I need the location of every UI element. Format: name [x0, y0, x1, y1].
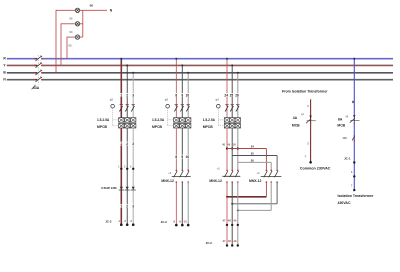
wire branch1 phase L1 feeder from bus R [120, 58, 122, 118]
svg-text:-47: -47 [222, 218, 226, 222]
wire branch3 phase L3 feeder from bus B [237, 72, 239, 118]
svg-text:From Isolation Transformer: From Isolation Transformer [282, 89, 328, 93]
terminal node branch3 JC-2 pin 48 [231, 244, 233, 246]
wire branch2 phase L1 MPCB to contactor [175, 128, 177, 170]
junction node branch3 wire 50 [237, 147, 239, 149]
svg-text:-49: -49 [233, 239, 237, 243]
bus B (phase bus line) [7, 72, 393, 74]
terminal node branch2 JC-2 pin 10 [187, 224, 190, 227]
MPCB q2 1.5-2.5A motor protection circuit breaker branch1 [111, 104, 136, 128]
svg-text:1.5-2.5A: 1.5-2.5A [97, 118, 110, 122]
wire branch1 phase L1 MPCB to motor terminal [120, 128, 122, 225]
wire 25 tap to reversing contactor [232, 156, 277, 171]
terminal node branch2 JC-2 pin 8 [175, 224, 178, 227]
pin number 2 branch1 lower [126, 204, 129, 208]
wire number 3 branch1 mid [132, 142, 135, 146]
terminal node branch3 row1 pin 49 [237, 224, 239, 226]
wire branch2 phase L2 contactor to terminal [181, 182, 183, 225]
svg-text:JC-2: JC-2 [161, 220, 168, 224]
wire branch3 phase L2 feeder from bus Y [231, 64, 233, 117]
wire branch2 phase L2 feeder from bus Y [181, 64, 183, 117]
wire branch3 phase L1 feeder from bus R [226, 58, 228, 118]
svg-text:1: 1 [120, 142, 122, 146]
wire reverse return 25 to motor V [232, 182, 277, 204]
wire branch2 phase L3 MPCB to contactor [187, 128, 189, 170]
svg-text:-47: -47 [222, 239, 226, 243]
pin number 26 branch3 [235, 93, 240, 97]
bus N (phase bus line) [7, 79, 393, 81]
pin number 3 branch1 lower [132, 204, 135, 208]
wire branch3 phase L2 MPCB to contactor K3 [231, 128, 233, 170]
svg-text:24: 24 [251, 145, 254, 149]
svg-text:2: 2 [126, 142, 128, 146]
terminal node branch2 JC-2 pin 9 [181, 224, 184, 227]
junction node U [226, 196, 228, 198]
svg-text:-48: -48 [227, 218, 231, 222]
svg-text:3: 3 [132, 94, 134, 98]
wire branch1 phase L3 feeder from bus B [132, 72, 134, 118]
svg-text:JC-2: JC-2 [206, 241, 213, 245]
wire lamp LP1 to bus B [56, 10, 75, 73]
svg-text:2: 2 [126, 94, 128, 98]
contactor K2 MNX-12 (3-pole) [172, 170, 191, 183]
wire lamp LP2 to bus Y [61, 23, 75, 65]
pin number 8 branch2 [175, 93, 178, 97]
svg-text:2: 2 [126, 205, 128, 209]
pin number 2 branch1 [126, 93, 129, 97]
wire number 8 branch2 mid [175, 155, 178, 159]
terminal node branch3 JC-2 pin 49 [237, 244, 239, 246]
MPCB q3 1.5-2.5A motor protection circuit breaker branch2 [166, 104, 191, 128]
pin number 3 branch1 [132, 93, 135, 97]
wire bus R to isolation transformer primary [353, 58, 355, 190]
indicator lamp LP1 [75, 8, 79, 12]
wire number 2 branch1 mid [126, 142, 129, 146]
svg-text:MNX-12: MNX-12 [249, 179, 262, 183]
wire lamp common to neutral N [80, 9, 107, 11]
svg-text:1.5-2.5A: 1.5-2.5A [152, 118, 165, 122]
wire branch2 phase L2 MPCB to contactor [181, 128, 183, 170]
svg-text:06: 06 [90, 4, 94, 8]
wire reverse return 24 to motor U [227, 182, 266, 197]
terminal node branch1 JC-2 pin 3 [132, 223, 135, 226]
wire branch2 phase L3 feeder from bus B [187, 72, 189, 118]
wire reverse return 26 to motor W [238, 182, 271, 210]
terminal node branch3 row1 pin 48 [231, 224, 233, 226]
wire branch3 phase L1 contactor to terminals [226, 182, 228, 245]
svg-text:9: 9 [181, 155, 183, 159]
wire number 10 branch2 mid [185, 155, 190, 159]
svg-text:1.5-2.5A: 1.5-2.5A [203, 118, 216, 122]
svg-text:3: 3 [132, 142, 134, 146]
plug connector PJ1 branch1 (3 poles) [119, 187, 136, 190]
bus R (phase bus line) [7, 58, 393, 60]
MCB F2 6A [350, 115, 360, 124]
terminal node JC-1 pin a [353, 161, 355, 163]
svg-text:9: 9 [181, 94, 183, 98]
svg-text:1: 1 [120, 205, 122, 209]
svg-text:-49: -49 [233, 218, 237, 222]
svg-text:Common 230VAC: Common 230VAC [300, 167, 331, 171]
wire lamp common vertical [80, 10, 83, 37]
pin number 10 branch2 [185, 93, 190, 97]
terminal node transformer primary [353, 189, 355, 191]
svg-text:26: 26 [235, 94, 239, 98]
terminal node branch1 JC-2 pin 2 [126, 223, 129, 226]
terminal node Common 230VAC [309, 161, 312, 164]
wire number 1 branch1 mid [120, 142, 123, 146]
terminal node branch1 JC-2 pin 1 [120, 223, 123, 226]
junction node branch3 wire 48 [226, 147, 228, 149]
junction node W [237, 209, 239, 211]
svg-text:3: 3 [132, 205, 134, 209]
svg-text:JC-1: JC-1 [344, 157, 351, 161]
svg-text:Isolation Trnasformer: Isolation Trnasformer [338, 194, 374, 198]
svg-text:24: 24 [224, 94, 228, 98]
svg-text:-48: -48 [227, 239, 231, 243]
MCB F1 4A [306, 116, 316, 125]
wire control feed 230VAC [310, 99, 312, 162]
svg-text:1: 1 [120, 94, 122, 98]
svg-text:-10: -10 [183, 220, 187, 224]
svg-text:8: 8 [175, 94, 177, 98]
wire branch1 phase L2 MPCB to motor terminal [126, 128, 128, 225]
pin number 9 branch2 [181, 93, 184, 97]
wire branch1 phase L2 feeder from bus Y [126, 64, 128, 117]
wire branch3 phase L3 contactor to terminals [237, 182, 239, 245]
svg-text:10: 10 [186, 155, 190, 159]
svg-text:10: 10 [186, 94, 190, 98]
pin number 1 branch1 [120, 93, 123, 97]
svg-text:MNX-12: MNX-12 [209, 179, 222, 183]
bus Y (phase bus line) [7, 64, 393, 66]
wire branch1 phase L3 MPCB to motor terminal [132, 128, 134, 225]
svg-text:MCB: MCB [292, 123, 300, 127]
junction node branch1 wire 3 [132, 168, 134, 170]
pin number 24 branch3 [224, 93, 229, 97]
svg-text:MPCB: MPCB [152, 125, 163, 129]
wire lamp LP3 to bus R [67, 37, 75, 59]
svg-text:MCB: MCB [337, 124, 345, 128]
terminal node branch3 JC-2 pin 47 [226, 244, 228, 246]
junction node V [231, 203, 233, 205]
svg-text:430VAC: 430VAC [338, 201, 351, 205]
svg-text:ON: ON [343, 136, 347, 140]
tap arrow node [352, 100, 354, 103]
svg-text:25: 25 [251, 152, 254, 156]
svg-text:6A: 6A [338, 117, 343, 121]
wire 24 tap to reversing contactor [227, 149, 266, 171]
terminal node branch3 row1 pin 47 [226, 224, 228, 226]
svg-text:JC-2: JC-2 [105, 219, 112, 223]
pin number 25 branch3 [229, 93, 234, 97]
junction node branch1 wire 1 [120, 168, 122, 170]
wire branch2 phase L3 contactor to terminal [187, 182, 189, 225]
wire branch3 phase L1 MPCB to contactor K3 [226, 128, 228, 170]
svg-text:0.5kW 12M: 0.5kW 12M [101, 186, 117, 190]
indicator lamp LP2 [75, 22, 79, 26]
wire number 9 branch2 mid [181, 155, 184, 159]
isolator Q0 63A 4-pole disconnect switch [32, 55, 43, 89]
switch ON contact [352, 135, 355, 142]
MPCB q4 1.5-2.5A motor protection circuit breaker branch3 [217, 104, 241, 128]
wire branch3 phase L2 contactor to terminals [231, 182, 233, 245]
indicator lamp LP3 [75, 35, 79, 39]
junction node branch1 wire 2 [126, 168, 128, 170]
svg-text:8: 8 [175, 155, 177, 159]
svg-text:MPCB: MPCB [97, 125, 108, 129]
svg-text:4A: 4A [293, 116, 298, 120]
junction node branch3 wire 49 [231, 147, 233, 149]
wire branch2 phase L1 contactor to terminal [175, 182, 177, 225]
wire branch3 phase L3 MPCB to contactor K3 [237, 128, 239, 170]
svg-text:MPCB: MPCB [203, 125, 214, 129]
contactor K4 MNX-12 reverse (3-pole) [261, 170, 282, 183]
terminal node JC-1 pin b [353, 175, 355, 177]
pin number 1 branch1 lower [120, 204, 123, 208]
contactor K3 MNX-12 forward (3-pole) [222, 170, 240, 183]
svg-text:MNX-12: MNX-12 [161, 179, 174, 183]
svg-text:26: 26 [251, 159, 254, 163]
svg-text:25: 25 [230, 94, 234, 98]
svg-text:63A: 63A [33, 86, 40, 90]
wire branch2 phase L1 feeder from bus R [175, 58, 177, 118]
wire 26 tap to reversing contactor [238, 162, 271, 170]
